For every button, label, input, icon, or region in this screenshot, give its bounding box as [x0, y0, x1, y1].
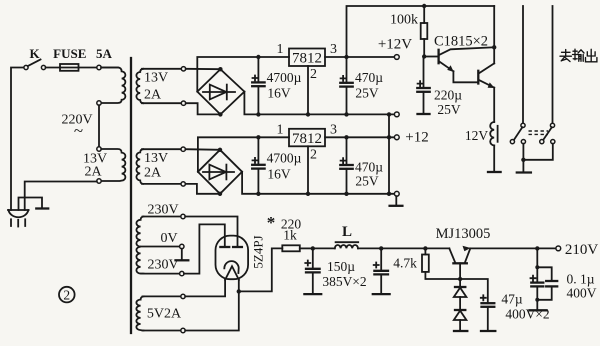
relay contact line B: [552, 6, 554, 123]
svg-text:2A: 2A: [84, 165, 102, 180]
svg-text:1: 1: [277, 123, 284, 138]
wire base junction to 47u: [460, 279, 488, 303]
transformer core: [130, 58, 132, 333]
figure number 2: [59, 287, 75, 303]
svg-text:3: 3: [330, 123, 337, 138]
transistor Q1: [439, 47, 494, 82]
capacitor 47u: [481, 295, 496, 331]
svg-text:2: 2: [310, 67, 317, 82]
bus wire linking rails: [388, 114, 390, 193]
terminal (primary mid upper): [97, 101, 101, 105]
wire bridge1 + output up to input rail: [197, 57, 289, 92]
char qu (go): [560, 50, 571, 62]
wire 230V top to right anode: [185, 217, 237, 248]
ground at 0V: [181, 249, 183, 260]
transformer primary winding 1 (220V section): [101, 68, 125, 104]
svg-text:0. 1µ: 0. 1µ: [566, 272, 594, 287]
wire right filament to 5V2A bottom: [185, 280, 239, 331]
wire primary bottom to plug: [25, 182, 97, 211]
wire link between primary sections: [98, 105, 100, 147]
svg-text:4700µ: 4700µ: [267, 151, 302, 166]
node B+ takeoff: [237, 289, 241, 293]
svg-text:100k: 100k: [390, 13, 418, 28]
wire secondary B top to bridge 2 top vertex: [185, 148, 220, 151]
resistor 100k: [390, 6, 427, 57]
wire terminal to primary winding 1: [101, 67, 118, 69]
capacitor 150u #2: [373, 248, 390, 294]
wire to MJ13005: [381, 247, 449, 249]
ground below contacts: [522, 160, 524, 172]
svg-text:7812: 7812: [292, 131, 322, 147]
contact common wires: [523, 144, 552, 160]
wire: mains live from plug up to switch: [11, 68, 24, 211]
wire secondary B bottom to bridge 2 bottom vertex: [185, 184, 220, 194]
bridge rectifier B2: [198, 148, 242, 196]
svg-text:2A: 2A: [144, 88, 162, 103]
secondary winding B (13V 2A lower): [136, 149, 143, 184]
mechanical link (dashed): [529, 131, 549, 134]
diode D1: [454, 279, 467, 310]
transformer primary winding 2 (13V 2A section): [101, 149, 125, 181]
relay coil 12V: [465, 122, 501, 172]
wire 230V bottom to left anode: [184, 224, 225, 273]
regulator U1 7812: [277, 42, 338, 82]
svg-text:5A: 5A: [96, 46, 113, 61]
switch K: [24, 46, 46, 70]
pin 2 wire down to ground rail: [307, 66, 309, 114]
svg-text:5V2A: 5V2A: [147, 307, 182, 322]
terminal (primary bottom): [97, 179, 101, 183]
wire B+ to resistor: [239, 248, 282, 291]
svg-text:3: 3: [330, 42, 337, 57]
svg-text:*: *: [267, 213, 276, 232]
mains plug: [8, 210, 29, 227]
chassis ground bar: [36, 207, 48, 209]
svg-text:+12V: +12V: [378, 37, 412, 53]
svg-text:25V: 25V: [355, 174, 379, 189]
svg-text:230V: 230V: [147, 203, 178, 218]
svg-text:0V: 0V: [160, 231, 177, 246]
char shu (transport): [573, 49, 585, 61]
char chu (out): [586, 49, 597, 62]
node filter 2: [379, 246, 383, 250]
tube V1 5Z4PJ: [216, 235, 266, 279]
capacitor 4700u 16V (supply 2): [252, 135, 301, 196]
svg-text:K: K: [29, 46, 40, 61]
node: base node: [422, 54, 426, 58]
output rail supply 2: [325, 136, 394, 138]
node 4.7k top: [423, 246, 427, 250]
wire Q2 emitter down to relay coil: [493, 88, 495, 122]
bridge rectifier B1: [197, 67, 244, 117]
inductor L: [313, 224, 381, 248]
terminal secondary B top: [181, 147, 185, 151]
node filter 1: [311, 246, 315, 250]
terminal secondary A top: [181, 67, 185, 71]
wire: supply1 output node up to top rail: [347, 6, 495, 57]
svg-text:5Z4PJ: 5Z4PJ: [250, 235, 265, 268]
svg-text:230V: 230V: [147, 258, 178, 273]
label: to output: [560, 49, 597, 62]
svg-text:~: ~: [74, 121, 83, 140]
svg-text:470µ: 470µ: [355, 70, 383, 85]
svg-text:25V: 25V: [355, 86, 379, 101]
capacitor 150u #1: [304, 248, 321, 294]
svg-text:220µ: 220µ: [434, 88, 462, 103]
wire bridge2 + output up to input rail 2: [198, 137, 289, 172]
svg-text:2: 2: [63, 288, 70, 303]
HV secondary winding 230-0-230: [136, 217, 143, 274]
output rail supply 1: [325, 56, 394, 58]
regulator U2 7812: [277, 123, 338, 163]
wire bridge2 - output down to ground rail 2: [242, 172, 394, 194]
transistor Q2: [478, 63, 494, 88]
output rail to 210V: [470, 247, 556, 249]
svg-text:L: L: [342, 224, 352, 240]
svg-text:400V×2: 400V×2: [505, 307, 549, 322]
filament winding 5V2A: [136, 296, 143, 330]
wire 0V tap: [141, 246, 180, 248]
svg-text:12V: 12V: [465, 128, 489, 143]
resistor 220 1k: [281, 217, 313, 252]
terminal (primary top): [97, 65, 101, 69]
wire secondary A top to bridge 1 top vertex: [186, 68, 221, 70]
wire 230V bottom tap: [143, 273, 180, 275]
node base junction: [458, 277, 462, 281]
capacitor 470u 25V (supply 2): [340, 137, 383, 196]
svg-text:16V: 16V: [267, 86, 291, 101]
capacitor 4700u 16V (supply 1): [252, 55, 301, 117]
svg-text:13V: 13V: [144, 71, 168, 86]
svg-text:4700µ: 4700µ: [267, 70, 302, 85]
svg-text:210V: 210V: [565, 242, 599, 258]
svg-text:13V: 13V: [144, 151, 168, 166]
relay contact line A: [522, 6, 524, 123]
svg-text:2: 2: [310, 148, 317, 163]
capacitor 0.1u network: [530, 248, 558, 310]
wire base node to Q1: [424, 56, 438, 58]
relay contact B: [540, 123, 555, 143]
svg-text:400V: 400V: [567, 286, 597, 301]
secondary winding A (13V 2A upper): [136, 69, 143, 103]
svg-text:25V: 25V: [437, 102, 461, 117]
diode D2: [454, 310, 468, 331]
wire switch to fuse: [46, 67, 60, 69]
svg-text:150µ: 150µ: [327, 259, 355, 274]
svg-text:7812: 7812: [292, 51, 322, 67]
wire secondary A bottom to bridge 1 bottom vertex: [186, 103, 221, 114]
capacitor 470u 25V (supply 1): [340, 57, 383, 117]
svg-text:1: 1: [277, 42, 284, 57]
terminal secondary B bottom: [181, 182, 185, 186]
wire fuse to terminal: [79, 67, 97, 69]
wire collector bus down from top rail: [493, 6, 495, 63]
svg-text:470µ: 470µ: [355, 160, 383, 175]
fuse FUSE 5A: [53, 46, 112, 71]
svg-text:385V×2: 385V×2: [322, 274, 366, 289]
svg-text:FUSE: FUSE: [53, 46, 86, 61]
capacitor 220u 25V: [417, 57, 462, 118]
wire left filament to 5V2A top: [185, 280, 225, 297]
svg-text:4.7k: 4.7k: [393, 256, 417, 271]
wire 230V top tap: [143, 216, 181, 218]
wire bridge1 - output down to ground rail: [244, 92, 394, 115]
ground rail terminal supply 1: [394, 112, 399, 117]
resistor 4.7k: [393, 248, 458, 279]
transistor Q3 MJ13005: [449, 246, 470, 279]
svg-text:MJ13005: MJ13005: [436, 226, 491, 242]
svg-text:47µ: 47µ: [501, 292, 523, 307]
terminal secondary A bottom: [181, 101, 185, 105]
svg-text:+12: +12: [405, 130, 428, 146]
svg-text:1k: 1k: [283, 228, 297, 243]
pin 2 wire down to ground rail 2: [307, 146, 309, 194]
svg-text:16V: 16V: [267, 167, 291, 182]
relay contact A: [510, 123, 525, 143]
ground symbol below supply 2 terminal: [395, 196, 397, 205]
svg-text:2A: 2A: [144, 166, 162, 181]
wire plug middle prong to chassis ground: [19, 198, 43, 211]
ground rail terminal supply 2: [394, 191, 399, 196]
terminal (primary mid lower): [97, 147, 101, 151]
